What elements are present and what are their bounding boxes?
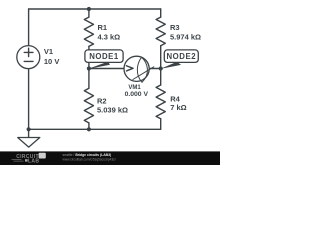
wire R1 bottom lead to node A	[88, 46, 90, 68]
wire node A to voltmeter	[89, 68, 124, 70]
svg-text:5.039 kΩ: 5.039 kΩ	[97, 105, 128, 114]
footer banner	[0, 151, 220, 165]
VM1 meter leaf right arc	[142, 57, 148, 82]
svg-text:NODE2: NODE2	[166, 52, 196, 61]
svg-text:R3: R3	[170, 23, 180, 32]
resistor R1	[84, 17, 93, 46]
node NODE1 label	[85, 50, 123, 63]
svg-text:V1: V1	[44, 47, 53, 56]
svg-text:seattle / Bridge circuits (LAB: seattle / Bridge circuits (LAB3)	[63, 153, 112, 157]
svg-text:LAB: LAB	[28, 159, 39, 165]
wire bottom rail	[29, 128, 161, 130]
svg-text:5.974 kΩ: 5.974 kΩ	[170, 33, 201, 42]
wire voltmeter to node B	[149, 68, 161, 70]
svg-text:VM1: VM1	[128, 85, 141, 91]
VM1 meter needle	[133, 67, 154, 80]
resistor R4	[156, 85, 165, 119]
wire R3 top lead	[160, 9, 162, 17]
svg-text:NODE1: NODE1	[89, 52, 119, 61]
ground	[18, 138, 40, 148]
junction bottom R2 tee	[87, 127, 91, 131]
wire R2 bottom lead	[88, 123, 90, 129]
wire left branch upper	[28, 9, 30, 46]
svg-text:R1: R1	[98, 23, 108, 32]
node NODE2 label	[164, 50, 198, 63]
node NODE1 pointer	[88, 62, 110, 69]
node NODE2 pointer	[160, 62, 181, 69]
wire R4 bottom lead	[160, 119, 162, 130]
svg-text:R2: R2	[97, 96, 107, 105]
junction top R1 tee	[87, 7, 91, 11]
wire R1 top lead	[88, 9, 90, 17]
voltmeter VM1	[124, 56, 149, 81]
node NODE2 junction	[159, 66, 163, 70]
wire R3 bottom lead to node B	[160, 46, 162, 69]
svg-text:4.3 kΩ: 4.3 kΩ	[98, 33, 121, 42]
wire top rail	[29, 8, 161, 10]
resistor R3	[156, 17, 165, 46]
wire left branch lower	[28, 69, 30, 130]
svg-text:7 kΩ: 7 kΩ	[170, 103, 186, 112]
svg-text:10 V: 10 V	[44, 57, 59, 66]
VM1 meter leaf left arc	[137, 57, 142, 82]
voltage source V1	[17, 46, 40, 69]
junction bottom ground tee	[27, 127, 31, 131]
wire ground stub	[28, 129, 30, 137]
CircuitLab logo	[16, 154, 39, 165]
V1 plus sign	[24, 48, 33, 56]
wire R2 top lead	[88, 69, 90, 89]
V1 minus sign	[24, 60, 33, 62]
VM1 arrow glyph	[127, 66, 134, 71]
wire R4 top lead	[160, 69, 162, 86]
svg-text:www.circuitlab.com/c/5sq5acu3r: www.circuitlab.com/c/5sq5acu3rp43s/	[63, 158, 116, 162]
svg-text:0.000 V: 0.000 V	[125, 91, 149, 98]
resistor R2	[84, 88, 93, 123]
node NODE1 junction	[87, 66, 91, 70]
